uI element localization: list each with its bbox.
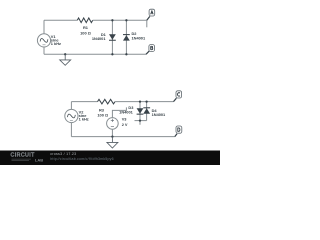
wire: mid rail — [135, 120, 147, 122]
svg-text:CIRCUIT: CIRCUIT — [11, 153, 36, 159]
junction D1 bottom — [111, 53, 113, 55]
wire: V2 bottom to bottom rail — [70, 123, 72, 137]
diode D3 — [137, 108, 144, 114]
wire: D1 branch — [111, 20, 113, 54]
ground (bottom circuit) — [111, 137, 113, 143]
wire: D4 branch — [146, 102, 148, 121]
svg-text:cross3 / 17.23: cross3 / 17.23 — [50, 152, 76, 156]
wire: top rail right segment — [93, 19, 147, 21]
wire: D3 branch — [139, 102, 141, 125]
wire: bottom rail — [44, 53, 146, 55]
svg-text:100 Ω: 100 Ω — [97, 112, 108, 117]
wire: bottom rail — [71, 136, 174, 138]
svg-text:R3: R3 — [99, 107, 105, 112]
source V1 — [37, 34, 50, 47]
junction V3 ground rail — [111, 135, 113, 137]
resistor R3 — [98, 99, 116, 104]
wire: V3 top elbow — [112, 107, 126, 117]
svg-text:V3: V3 — [122, 116, 128, 121]
svg-text:2 V: 2 V — [122, 122, 128, 127]
svg-text:http:⁄⁄circuitlab.com/c/fVdfh3: http:⁄⁄circuitlab.com/c/fVdfh3mk5py6 — [50, 157, 114, 161]
source V3 — [107, 118, 119, 130]
junction D2 top — [125, 19, 127, 21]
junction D1 top — [111, 19, 113, 21]
resistor R1 — [77, 18, 92, 23]
svg-text:1 kHz: 1 kHz — [79, 117, 89, 122]
wire: top rail left segment — [71, 101, 97, 103]
wire: V1 bottom to bottom rail — [43, 47, 45, 54]
diode D2 — [123, 34, 130, 36]
schematic background — [0, 0, 220, 165]
terminal D — [175, 134, 177, 137]
wire: left rail to V2 — [70, 102, 72, 110]
junction D4 top — [145, 100, 147, 102]
svg-text:1 kHz: 1 kHz — [51, 41, 61, 46]
junction D2 bottom — [125, 53, 127, 55]
junction D3 top — [139, 100, 141, 102]
diode D4 — [143, 107, 150, 109]
wire: D2 branch — [125, 20, 127, 54]
svg-text:100 Ω: 100 Ω — [80, 31, 91, 36]
source V2 — [65, 109, 78, 122]
svg-text:LAB: LAB — [35, 157, 43, 162]
wire: top rail right segment — [115, 101, 174, 103]
junction D3 bottom / mid rail — [139, 119, 141, 121]
footer bar — [0, 151, 220, 166]
svg-text:R1: R1 — [83, 25, 89, 30]
terminal B — [146, 51, 149, 54]
wire: V3 bottom — [111, 129, 113, 136]
svg-text:1N4001: 1N4001 — [92, 36, 106, 41]
svg-text:1N4001: 1N4001 — [152, 112, 166, 117]
terminal C — [174, 98, 177, 101]
wire: left rail to V1 — [43, 20, 45, 34]
terminal A — [147, 16, 150, 20]
ground (top circuit) — [64, 54, 66, 60]
junction ground 1 — [64, 53, 66, 55]
wire: top rail left segment — [44, 19, 77, 21]
wire: stub below node A junction — [146, 20, 148, 27]
diode D1 — [109, 34, 116, 40]
svg-text:1N4001: 1N4001 — [132, 36, 146, 41]
